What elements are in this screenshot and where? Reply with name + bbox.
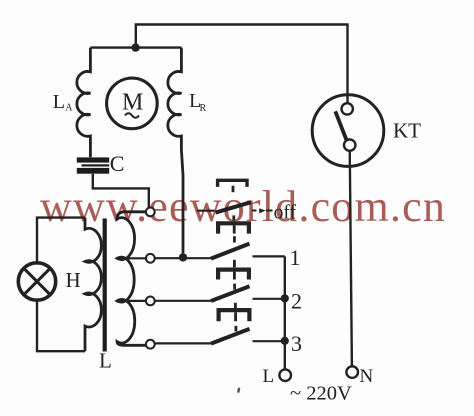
wire motor top rail xyxy=(90,46,181,48)
svg-text:A: A xyxy=(65,103,73,114)
watermark xyxy=(40,182,446,231)
inductor LA (left branch with coil) xyxy=(77,48,91,158)
svg-text:R: R xyxy=(200,103,207,114)
svg-text:H: H xyxy=(66,268,81,292)
svg-text:L: L xyxy=(99,349,112,373)
switch SW1 xyxy=(155,257,211,259)
scan speck xyxy=(237,387,240,392)
svg-text:1: 1 xyxy=(290,245,301,270)
wire KT to N terminal xyxy=(350,166,352,366)
relay timer KT circle xyxy=(312,95,384,167)
transformer secondary coil xyxy=(117,212,146,345)
linkage between off and 1 xyxy=(218,215,249,242)
svg-text:~ 220V: ~ 220V xyxy=(290,383,352,405)
wire lamp loop bottom xyxy=(37,300,85,351)
svg-text:off: off xyxy=(274,202,297,223)
terminal N xyxy=(346,366,358,378)
terminal tap1 xyxy=(146,208,155,217)
transformer core xyxy=(103,219,107,352)
linkage between 1 and 2 xyxy=(218,260,249,290)
wire top rail from junction to KT branch xyxy=(136,25,348,95)
label LA xyxy=(53,91,73,114)
inductor LR (right branch with coil) xyxy=(168,48,183,254)
KT top contact xyxy=(342,103,353,114)
label LR xyxy=(189,90,207,114)
capacitor C xyxy=(77,157,109,173)
KT bottom contact xyxy=(344,139,355,150)
switch SW3 xyxy=(155,342,211,344)
key actuator off (bracket above off blade) xyxy=(218,180,247,192)
terminal L xyxy=(279,369,291,381)
wire KT internal stubs xyxy=(346,95,348,103)
transformer primary coil xyxy=(85,218,101,352)
wire right bus to L terminal xyxy=(284,256,286,369)
node bus2 xyxy=(281,294,289,302)
node LR junction xyxy=(179,253,187,261)
wire capacitor to tap1 xyxy=(93,174,149,208)
node top junction xyxy=(131,43,139,51)
svg-text:3: 3 xyxy=(291,331,302,356)
svg-text:KT: KT xyxy=(393,119,421,143)
svg-text:L: L xyxy=(53,91,65,113)
motor M xyxy=(107,78,158,129)
switch SW2 xyxy=(155,300,211,302)
linkage between 2 and 3 xyxy=(219,303,250,332)
svg-text:N: N xyxy=(360,366,374,387)
switch SW-off xyxy=(197,210,215,212)
svg-text:M: M xyxy=(122,90,143,116)
wire lamp loop top xyxy=(37,218,85,263)
svg-text:C: C xyxy=(110,151,125,176)
svg-text:L: L xyxy=(263,366,275,387)
node bus3 xyxy=(281,337,289,345)
lamp H xyxy=(18,263,55,300)
terminal tap3 xyxy=(146,297,155,306)
svg-text:2: 2 xyxy=(291,289,302,314)
terminal tap2 xyxy=(146,254,155,263)
secondary mid taps xyxy=(117,258,146,301)
KT blade xyxy=(335,111,346,140)
terminal tap4 xyxy=(146,340,155,349)
